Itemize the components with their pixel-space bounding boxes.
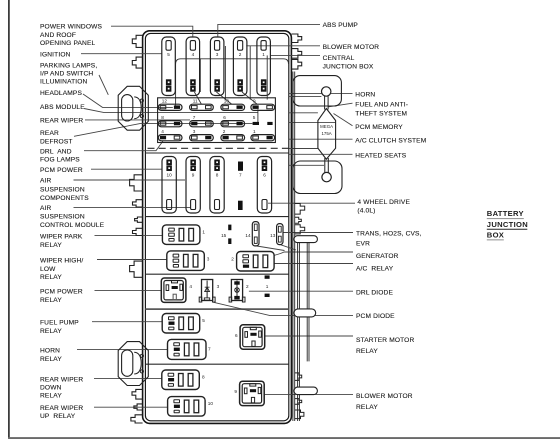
bar right 1 <box>294 236 317 243</box>
svg-text:10: 10 <box>208 401 214 406</box>
tab rail 3 <box>295 225 305 234</box>
fuse 8 <box>210 157 224 214</box>
divider line below maxi fuse row 2 <box>145 216 288 218</box>
svg-text:RELAY: RELAY <box>40 297 62 304</box>
svg-text:PCM MEMORY: PCM MEMORY <box>355 124 403 131</box>
bottom page border line <box>8 437 560 439</box>
wire DRL DIODE leader <box>249 290 353 292</box>
wire A/C RELAY leader <box>274 263 353 265</box>
svg-text:DOWN: DOWN <box>40 385 62 392</box>
svg-text:9: 9 <box>234 389 237 394</box>
fuse F14 <box>245 222 259 246</box>
svg-text:REAR WIPER: REAR WIPER <box>40 117 83 124</box>
svg-text:7: 7 <box>208 347 211 352</box>
wire internal row lower <box>289 148 318 150</box>
wire TRANS HO2S leader <box>283 232 353 234</box>
wire STARTER MOTOR RELAY leader <box>265 335 353 337</box>
svg-text:SUSPENSION: SUSPENSION <box>40 186 85 193</box>
svg-text:13: 13 <box>270 233 276 238</box>
wire internal to mega stem <box>289 95 322 97</box>
wire REAR WIPER DOWN to relay 8 <box>94 378 162 380</box>
svg-text:2: 2 <box>223 129 226 134</box>
svg-text:8: 8 <box>216 173 219 178</box>
tab left 2 <box>132 57 142 68</box>
wire AIR SUSPENSION COMPONENTS <box>74 179 186 181</box>
wire AIR SUSPENSION CONTROL MODULE <box>74 206 191 208</box>
title BATTERY JUNCTION BOX <box>487 209 528 240</box>
mini fuse 7 <box>190 115 214 127</box>
svg-text:FOG LAMPS: FOG LAMPS <box>40 157 80 164</box>
wire DRL FOG LAMPS to mini fuse 4 <box>84 141 163 151</box>
svg-text:SUSPENSION: SUSPENSION <box>40 214 85 221</box>
tab rail 1 <box>295 204 305 215</box>
wire FUEL PUMP RELAY to relay 5 <box>92 321 162 323</box>
label POWER WINDOWS AND ROOF OPENING PANEL <box>40 24 102 47</box>
slot 7 terminals <box>238 162 243 211</box>
tab rail 4 <box>295 373 302 381</box>
wire HORN leader <box>289 92 353 94</box>
label AIR SUSPENSION CONTROL MODULE <box>40 205 105 229</box>
svg-text:2: 2 <box>246 284 249 289</box>
fuse 3 <box>210 37 224 96</box>
label WIPER HIGH/LOW RELAY <box>40 258 83 282</box>
divider line below relay 7 row <box>145 363 288 365</box>
connector C2 octagon <box>118 342 148 386</box>
svg-text:IGNITION: IGNITION <box>40 51 71 58</box>
wire REAR WIPER to mini fuse 7 <box>85 119 190 121</box>
relay R7 <box>168 339 212 359</box>
label DRL AND FOG LAMPS <box>40 148 80 163</box>
dashed separator line <box>148 147 289 149</box>
mini fuse 6 <box>221 115 245 127</box>
label FUEL PUMP RELAY <box>40 319 79 335</box>
relay R4 square <box>161 278 192 302</box>
svg-text:BATTERY: BATTERY <box>487 209 524 218</box>
divider line below mini fuse grid <box>145 152 288 154</box>
wire PCM DIODE leader <box>212 302 353 316</box>
svg-text:A/C CLUTCH SYSTEM: A/C CLUTCH SYSTEM <box>355 137 426 144</box>
svg-text:6: 6 <box>223 115 226 120</box>
tab left 5 <box>133 228 143 235</box>
fuse 1 <box>257 37 271 96</box>
svg-text:4 WHEEL DRIVE: 4 WHEEL DRIVE <box>357 199 410 206</box>
svg-text:7: 7 <box>239 173 242 178</box>
label FUEL AND ANTI-THEFT SYSTEM <box>355 102 408 118</box>
mini fuse 10 <box>221 99 245 111</box>
wire vertical right of fuse 2 <box>249 46 251 100</box>
mega fuse bottom stem <box>324 158 326 173</box>
mega fuse top terminal circle <box>322 87 331 96</box>
wire REAR DEFROST to mini slot 5 <box>74 124 252 137</box>
wire fuse 13 diagonal <box>281 245 296 250</box>
svg-text:LOW: LOW <box>40 266 56 273</box>
svg-text:10: 10 <box>224 99 230 104</box>
svg-text:(4.0L): (4.0L) <box>357 208 375 215</box>
wire vertical below fuse 1 <box>266 55 268 99</box>
relay R3 <box>167 251 210 271</box>
svg-text:RELAY: RELAY <box>40 242 62 249</box>
label HORN RELAY <box>40 347 62 362</box>
wire PCM POWER RELAY to relay 4 <box>95 290 162 292</box>
wire mini fuse 9 drop to slot 5 <box>257 109 259 122</box>
svg-text:HORN: HORN <box>355 91 375 98</box>
rail C <box>306 243 308 362</box>
svg-text:BOX: BOX <box>487 231 504 240</box>
label 4 WHEEL DRIVE (4.0L) <box>357 199 410 215</box>
label CENTRAL JUNCTION BOX <box>323 55 374 70</box>
wire internal row <box>289 112 318 114</box>
mini fuse 12 <box>158 99 182 111</box>
diode D3 <box>199 280 219 303</box>
svg-text:RELAY: RELAY <box>40 274 62 281</box>
svg-text:1: 1 <box>253 129 256 134</box>
divider line below relay 4 row <box>145 308 288 310</box>
svg-text:RELAY: RELAY <box>356 404 378 411</box>
mini fuse grid frame <box>158 98 276 143</box>
diode D2 <box>229 280 249 303</box>
svg-text:JUNCTION BOX: JUNCTION BOX <box>323 63 374 70</box>
tab left 9 <box>131 415 143 423</box>
svg-text:8: 8 <box>161 115 164 120</box>
svg-text:6: 6 <box>235 333 238 338</box>
tab rail 2 <box>295 217 302 223</box>
svg-text:2: 2 <box>231 257 234 262</box>
wire BLOWER MOTOR to fuse 2 <box>246 45 320 47</box>
svg-text:PCM POWER: PCM POWER <box>40 288 83 295</box>
svg-text:9: 9 <box>192 173 195 178</box>
svg-text:RELAY: RELAY <box>40 393 62 400</box>
svg-text:HORN: HORN <box>40 347 60 354</box>
svg-text:WIPER PARK: WIPER PARK <box>40 233 83 240</box>
svg-text:3: 3 <box>193 129 196 134</box>
fuse 6 <box>257 157 271 214</box>
mini fuse 9 <box>251 99 275 111</box>
svg-text:AND ROOF: AND ROOF <box>40 32 76 39</box>
tab left 6 <box>130 261 143 277</box>
relay R6 square <box>235 325 265 349</box>
wire IGNITION to fuse 5 <box>81 53 162 55</box>
svg-text:REAR: REAR <box>40 130 59 137</box>
svg-text:WIPER HIGH/: WIPER HIGH/ <box>40 258 83 265</box>
svg-text:RELAY: RELAY <box>40 328 62 335</box>
mini fuse 4 <box>158 129 182 141</box>
tab rail 6 <box>295 410 304 419</box>
wire CENTRAL JUNCTION BOX to fuse 1 <box>270 54 320 56</box>
svg-text:CENTRAL: CENTRAL <box>323 55 355 62</box>
fuse 10 <box>162 157 176 214</box>
label WIPER PARK RELAY <box>40 233 83 249</box>
mini fuse 3 <box>190 129 214 141</box>
label AIR SUSPENSION COMPONENTS <box>40 177 89 202</box>
svg-text:AIR: AIR <box>40 177 52 184</box>
tab left 8 <box>134 404 143 410</box>
tab right 3 <box>291 59 301 69</box>
svg-text:DRL DIODE: DRL DIODE <box>356 290 393 297</box>
tab right 1 <box>291 34 301 43</box>
wire vertical right of fuse 3 <box>224 46 226 100</box>
relay R10 <box>168 397 214 417</box>
tab left 1 <box>132 35 142 47</box>
mini fuse 2 <box>221 129 245 141</box>
rail B <box>297 243 299 421</box>
svg-text:ABS MODULE: ABS MODULE <box>40 104 85 111</box>
svg-text:REAR WIPER: REAR WIPER <box>40 376 83 383</box>
svg-text:1: 1 <box>266 284 269 289</box>
fuse 9 <box>186 157 200 214</box>
svg-text:175A: 175A <box>321 131 331 136</box>
svg-text:POWER WINDOWS: POWER WINDOWS <box>40 24 102 31</box>
sub-box mega top <box>293 76 341 106</box>
svg-text:12: 12 <box>162 99 168 104</box>
connector C1 octagon <box>118 86 148 130</box>
fuse F13 <box>270 224 283 245</box>
wire ABS MODULE to mini fuse 9 <box>84 109 258 113</box>
wire PCM MEMORY leader <box>334 114 353 126</box>
wire FUEL ANTI-THEFT leader <box>329 103 353 107</box>
svg-text:RELAY: RELAY <box>356 348 378 355</box>
wire WIPER PARK RELAY to relay 1 <box>95 235 163 237</box>
mega fuse bottom terminal circle <box>322 172 331 181</box>
sub-box mega bottom <box>293 161 342 194</box>
svg-text:DEFROST: DEFROST <box>40 138 73 145</box>
svg-text:ILLUMINATION: ILLUMINATION <box>40 79 88 86</box>
svg-text:9: 9 <box>253 99 256 104</box>
wire 4 WHEEL DRIVE leader <box>268 202 355 204</box>
svg-text:3: 3 <box>216 52 219 57</box>
wire PARKING LAMPS leader <box>99 75 108 95</box>
bar right 2 <box>294 309 316 317</box>
svg-text:BLOWER MOTOR: BLOWER MOTOR <box>323 44 380 51</box>
mini fuse 8 <box>158 115 182 127</box>
svg-text:4: 4 <box>161 129 164 134</box>
svg-text:MEGA: MEGA <box>320 124 333 129</box>
wire diagonal fuse 3 to mini fuse 10 <box>216 92 231 104</box>
svg-text:REAR WIPER: REAR WIPER <box>40 405 83 412</box>
svg-text:8: 8 <box>202 375 205 380</box>
label REAR DEFROST <box>40 130 73 145</box>
svg-text:DRL AND: DRL AND <box>40 148 72 155</box>
bar right 3 <box>294 387 317 395</box>
svg-text:PCM DIODE: PCM DIODE <box>356 313 395 320</box>
divider line below relay row 2/3 <box>145 273 288 275</box>
left page border line <box>8 0 10 439</box>
junction box inner wall <box>145 33 288 420</box>
wire WIPER HIGH LOW to relay 3 <box>97 259 167 261</box>
svg-text:THEFT SYSTEM: THEFT SYSTEM <box>355 111 407 118</box>
wire BLOWER MOTOR RELAY leader <box>264 393 353 395</box>
svg-text:A/C RELAY: A/C RELAY <box>356 266 394 273</box>
svg-text:5: 5 <box>167 52 170 57</box>
fuse slot 15 marks <box>221 225 231 244</box>
svg-text:COMPONENTS: COMPONENTS <box>40 195 89 202</box>
wire HORN RELAY to relay 7 <box>77 349 168 351</box>
label TRANS HO2S CVS EVR <box>356 231 422 248</box>
relay R8 <box>162 370 205 390</box>
tab left 3 <box>130 175 143 191</box>
svg-text:RELAY: RELAY <box>40 356 62 363</box>
relay R9 square <box>234 381 264 405</box>
inner top wire run <box>176 59 289 106</box>
wire internal bottom row <box>289 164 324 166</box>
mega fuse top stem <box>324 96 326 109</box>
mini slot 5 terminals <box>253 115 273 125</box>
rail A <box>292 72 294 422</box>
svg-text:7: 7 <box>193 115 196 120</box>
wire fuse 14 diagonal <box>257 246 285 251</box>
svg-text:5: 5 <box>253 115 256 120</box>
svg-text:CONTROL MODULE: CONTROL MODULE <box>40 222 105 229</box>
label REAR WIPER DOWN RELAY <box>40 376 83 399</box>
wire PCM POWER to maxi fuse 10 <box>91 168 162 170</box>
svg-text:14: 14 <box>245 233 251 238</box>
svg-text:EVR: EVR <box>356 241 370 248</box>
svg-text:4: 4 <box>192 52 195 57</box>
wire internal row crossing hexagon <box>289 121 336 123</box>
svg-text:5: 5 <box>202 318 205 323</box>
tab right 2 <box>291 49 301 59</box>
wire A/C CLUTCH SYSTEM leader <box>289 138 353 140</box>
junction box outer wall <box>143 31 292 424</box>
svg-text:2: 2 <box>239 52 242 57</box>
svg-text:6: 6 <box>263 173 266 178</box>
tab left 4 <box>133 200 143 207</box>
wire REAR WIPER UP to relay 10 <box>94 406 168 408</box>
relay R2 <box>231 252 274 272</box>
fuse 2 <box>233 37 247 96</box>
wire ABS PUMP to fuse 3 <box>218 24 320 36</box>
relay R5 <box>162 314 205 334</box>
wire diagonal fuse 2 to mini fuse 9 <box>242 92 257 104</box>
diode slot 1 marks <box>265 275 270 297</box>
svg-text:GENERATOR: GENERATOR <box>356 253 399 260</box>
svg-text:TRANS, HO2S, CVS,: TRANS, HO2S, CVS, <box>356 231 422 238</box>
label REAR WIPER UP RELAY <box>40 405 83 420</box>
label STARTER MOTOR RELAY <box>356 337 414 355</box>
wire GENERATOR leader <box>274 252 353 256</box>
svg-text:1: 1 <box>262 52 265 57</box>
tab left 5a <box>135 217 143 222</box>
label BLOWER MOTOR RELAY <box>356 393 413 411</box>
wire diagonal fuse 4 to mini fuse 11 <box>194 92 201 104</box>
fuse 4 <box>186 37 200 96</box>
tab left 7 <box>132 389 143 399</box>
svg-text:1: 1 <box>202 229 205 234</box>
svg-text:OPENING PANEL: OPENING PANEL <box>40 40 96 47</box>
svg-text:PARKING LAMPS,: PARKING LAMPS, <box>40 63 97 70</box>
svg-text:AIR: AIR <box>40 205 52 212</box>
svg-text:HEADLAMPS: HEADLAMPS <box>40 90 82 97</box>
wire vertical below fuse 4 <box>199 59 201 92</box>
label PCM POWER RELAY <box>40 288 83 304</box>
wire POWER WINDOWS to fuse 4 <box>111 26 193 37</box>
svg-text:11: 11 <box>193 99 198 104</box>
svg-text:FUEL AND ANTI-: FUEL AND ANTI- <box>355 102 408 109</box>
svg-text:I/P AND SWITCH: I/P AND SWITCH <box>40 71 93 78</box>
svg-text:10: 10 <box>166 173 172 178</box>
svg-text:STARTER MOTOR: STARTER MOTOR <box>356 337 414 344</box>
mini fuse 11 <box>190 99 214 111</box>
svg-text:3: 3 <box>217 284 220 289</box>
svg-text:HEATED SEATS: HEATED SEATS <box>355 152 406 159</box>
svg-text:FUEL PUMP: FUEL PUMP <box>40 319 79 326</box>
svg-text:PCM POWER: PCM POWER <box>40 167 83 174</box>
tab rail 5 <box>295 399 302 405</box>
svg-text:BLOWER MOTOR: BLOWER MOTOR <box>356 393 413 400</box>
mega fuse body <box>318 109 336 160</box>
svg-text:JUNCTION: JUNCTION <box>487 220 528 229</box>
svg-text:3: 3 <box>207 257 210 262</box>
svg-text:15: 15 <box>221 233 227 238</box>
svg-text:4: 4 <box>189 284 192 289</box>
svg-text:ABS PUMP: ABS PUMP <box>323 22 359 29</box>
fuse 5 <box>162 37 176 96</box>
label PARKING LAMPS I/P AND SWITCH ILLUMINATION <box>40 63 97 86</box>
wire HEATED SEATS leader <box>289 153 353 155</box>
svg-text:UP RELAY: UP RELAY <box>40 413 76 420</box>
mini fuse 1 <box>251 129 275 141</box>
relay R1 <box>162 225 205 245</box>
wire HEADLAMPS to mini fuse 12 <box>83 94 173 107</box>
